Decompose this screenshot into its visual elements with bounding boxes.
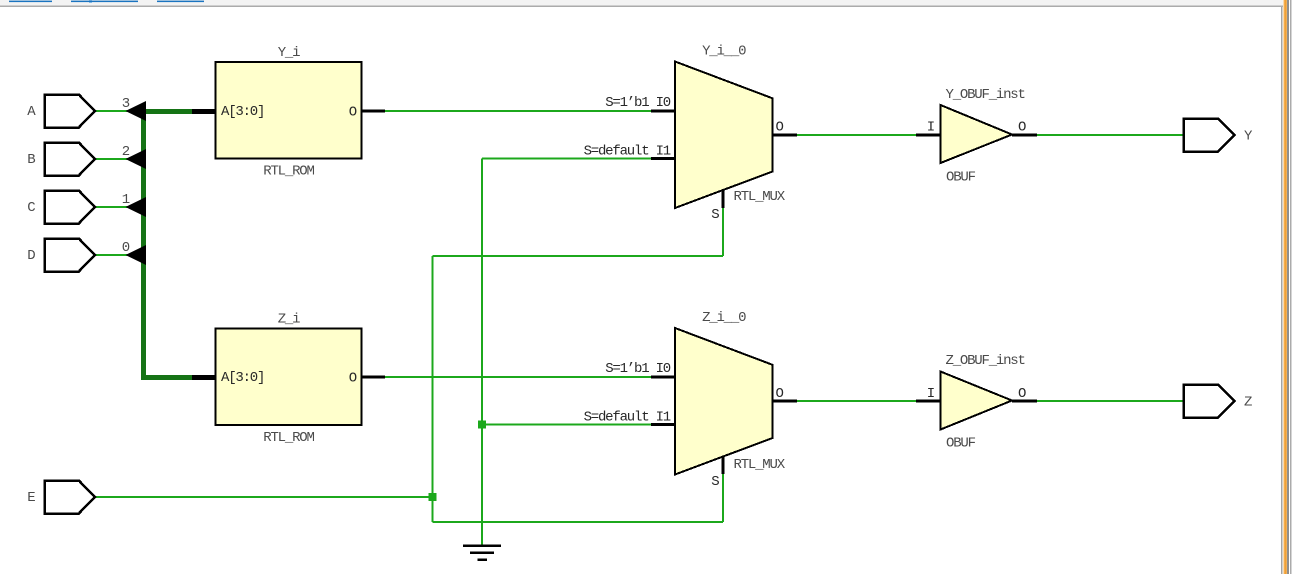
svg-text:S=1’b1 I0: S=1’b1 I0 [605, 361, 671, 377]
bus vertical A[3:0] [141, 109, 146, 380]
svg-text:Z_i: Z_i [278, 312, 300, 328]
svg-text:S=default I1: S=default I1 [584, 144, 671, 160]
svg-text:OBUF: OBUF [946, 170, 976, 186]
wire A port to bus tap [94, 110, 142, 112]
wire Z mux O to Z OBUF [797, 400, 916, 402]
Y mux I1 stub [651, 157, 676, 160]
port Z [1184, 385, 1235, 418]
wire E port [94, 496, 433, 498]
E net riser to Z mux S [722, 474, 724, 522]
port D [45, 239, 95, 272]
ground net vertical [481, 159, 483, 546]
svg-text:Y_i__0: Y_i__0 [702, 44, 746, 60]
svg-text:RTL_MUX: RTL_MUX [734, 457, 786, 473]
svg-text:Y_OBUF_inst: Y_OBUF_inst [946, 87, 1025, 103]
ROM Y_i [216, 62, 362, 159]
svg-text:Z_OBUF_inst: Z_OBUF_inst [946, 353, 1025, 369]
wire B port to bus tap [94, 158, 142, 160]
ground symbol [463, 545, 501, 561]
toolbar blue underline 2 [71, 1, 138, 2]
Z mux I0 stub [651, 376, 676, 379]
buffer Y_OBUF_inst [941, 105, 1013, 163]
svg-text:RTL_MUX: RTL_MUX [734, 189, 786, 205]
Y OBUF I stub [916, 134, 941, 137]
toolbar blue tick [89, 0, 92, 3]
bus tap triangle bit 0 [126, 245, 147, 265]
svg-text:1: 1 [122, 192, 130, 208]
bus tap triangle bit 1 [126, 197, 147, 217]
svg-text:3: 3 [122, 96, 130, 112]
bus horizontal to Y_i [141, 109, 192, 114]
toolbar band top [0, 0, 1283, 6]
svg-text:O: O [349, 371, 357, 387]
svg-text:S: S [711, 207, 719, 223]
Y mux I0 stub [651, 110, 676, 113]
ground net to Z mux I1 [482, 424, 651, 426]
svg-text:A[3:0]: A[3:0] [221, 104, 264, 120]
Z_i output stub [361, 376, 385, 379]
canvas right border [1281, 7, 1282, 574]
scrollbar gray shadow [1287, 0, 1289, 574]
ROM Z_i [216, 329, 362, 426]
svg-text:RTL_ROM: RTL_ROM [263, 430, 314, 446]
Z OBUF I stub [916, 400, 941, 403]
svg-text:Y_i: Y_i [278, 45, 300, 61]
svg-text:O: O [776, 386, 784, 402]
junction ground net [478, 421, 486, 429]
svg-text:O: O [349, 105, 357, 121]
toolbar bottom gray line [0, 6, 1283, 7]
Y OBUF O stub [1012, 134, 1037, 137]
mux Z_i__0 [675, 328, 773, 475]
wire Z_i O to Z mux I0 [385, 376, 651, 378]
svg-text:E: E [27, 490, 35, 506]
E net vertical [432, 256, 434, 522]
wire Z OBUF to Z port [1037, 400, 1183, 402]
svg-text:A[3:0]: A[3:0] [221, 370, 264, 386]
svg-text:I: I [927, 120, 934, 136]
Y mux S stub [722, 189, 725, 209]
svg-text:I: I [927, 386, 934, 402]
bus horizontal to Z_i [141, 375, 192, 380]
port C [45, 191, 95, 224]
svg-text:S=1’b1 I0: S=1’b1 I0 [605, 95, 671, 111]
wire Y_i O to Y mux I0 [385, 110, 651, 112]
bus pin stub Z_i A[3:0] [192, 375, 216, 380]
Z mux O stub [772, 400, 797, 403]
junction E net [429, 493, 437, 501]
wire Y mux O to Y OBUF [797, 134, 916, 136]
Z mux S stub [722, 455, 725, 474]
svg-text:OBUF: OBUF [946, 436, 976, 452]
Z mux I1 stub [651, 423, 676, 426]
toolbar blue underline 1 [9, 1, 52, 2]
svg-text:Z_i__0: Z_i__0 [702, 310, 746, 326]
E net riser to Y mux S [722, 208, 724, 256]
Z OBUF O stub [1012, 400, 1037, 403]
svg-text:S: S [711, 474, 719, 490]
Y mux O stub [772, 134, 797, 137]
port B [45, 143, 95, 176]
toolbar blue underline 3 [157, 1, 204, 2]
svg-text:O: O [1018, 120, 1026, 136]
wire C port to bus tap [94, 206, 142, 208]
wire D port to bus tap [94, 254, 142, 256]
wire Y OBUF to Y port [1037, 134, 1183, 136]
svg-text:2: 2 [122, 144, 130, 160]
svg-text:O: O [776, 120, 784, 136]
buffer Z_OBUF_inst [941, 372, 1013, 430]
svg-text:O: O [1018, 386, 1026, 402]
svg-text:S=default I1: S=default I1 [584, 410, 671, 426]
E net horizontal to Z mux S [433, 521, 724, 523]
mux Y_i__0 [675, 62, 773, 209]
svg-text:D: D [27, 248, 35, 264]
bus pin stub Y_i A[3:0] [192, 109, 216, 114]
svg-text:RTL_ROM: RTL_ROM [263, 164, 314, 180]
window right edge line [1290, 0, 1291, 574]
port Y [1184, 119, 1235, 152]
Y_i output stub [361, 110, 385, 113]
bus tap triangle bit 2 [126, 149, 147, 169]
svg-text:0: 0 [122, 240, 130, 256]
port E [45, 481, 95, 514]
svg-text:C: C [27, 200, 35, 216]
svg-text:B: B [27, 152, 35, 168]
svg-text:Z: Z [1244, 395, 1252, 411]
bus tap triangle bit 3 [126, 101, 147, 121]
port A [45, 95, 95, 128]
ground net to Y mux I1 [482, 158, 651, 160]
E net horizontal to Y mux S [433, 255, 724, 257]
